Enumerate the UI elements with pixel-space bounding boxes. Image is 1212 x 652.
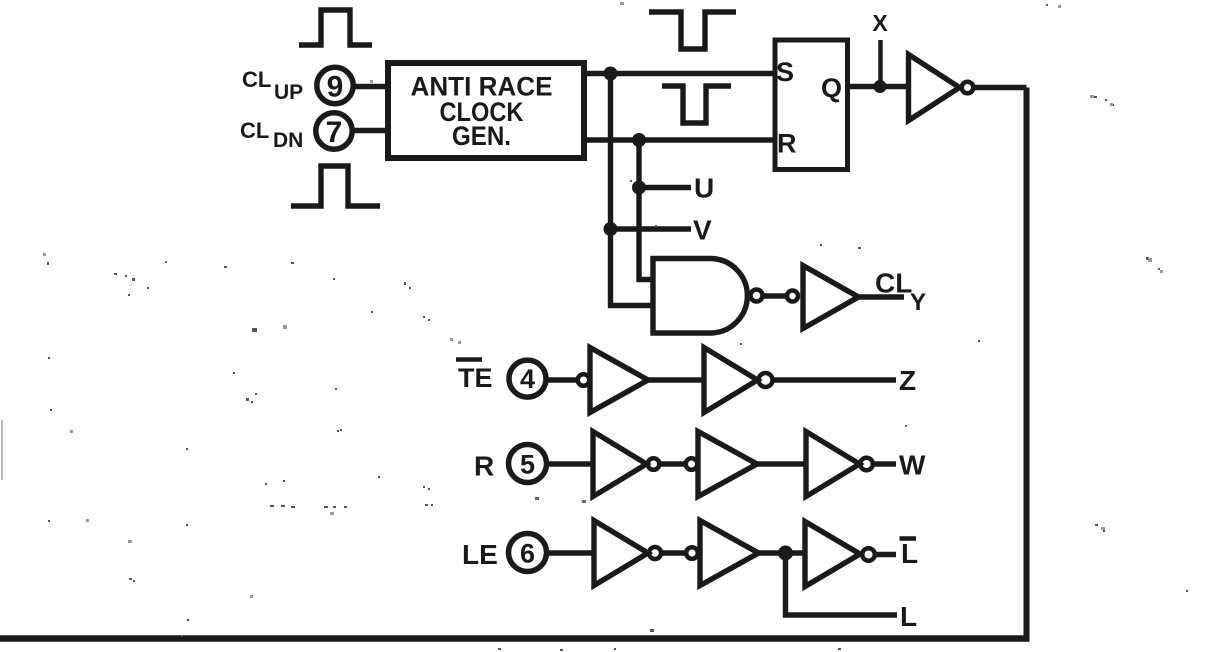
pin circle 6 (LE) <box>509 534 547 572</box>
wire right vertical bus <box>1024 88 1030 639</box>
junction node V <box>604 222 618 236</box>
svg-text:R: R <box>777 129 797 159</box>
wire pin4 to inverter <box>546 377 578 382</box>
inversion bubble of U4 <box>751 290 763 302</box>
wire vertical from S junction down to NAND lower input <box>611 74 656 306</box>
inverter U5 triangle <box>803 266 859 329</box>
svg-text:7: 7 <box>326 116 343 149</box>
output bubble of U13 <box>862 548 875 561</box>
svg-text:CL: CL <box>875 268 912 299</box>
svg-text:X: X <box>872 10 888 36</box>
buffer U3 (after Q) <box>909 55 960 121</box>
junction node U <box>632 181 646 195</box>
wire U10 output to W <box>873 461 896 466</box>
wire U9 to U10 <box>757 461 806 466</box>
junction before U13 <box>778 546 793 561</box>
wire bottom bus <box>0 635 1030 642</box>
pin circle 4 (TE) <box>509 360 546 397</box>
inversion bubble of U3 <box>962 82 974 94</box>
input bubble inverter U6 <box>578 374 590 386</box>
wire pin9 to block <box>353 84 388 89</box>
svg-text:U: U <box>694 173 714 204</box>
output bubble of U8 <box>648 458 660 470</box>
wire S net: block output to latch S input <box>587 71 774 76</box>
svg-text:S: S <box>776 57 794 87</box>
wire NAND to inverter U5 <box>763 293 786 298</box>
overline of TE label <box>456 357 482 362</box>
wire pin5 to U8 <box>547 461 593 466</box>
svg-text:R: R <box>474 451 494 482</box>
wire junction down to L <box>786 553 898 615</box>
junction node X <box>874 80 887 93</box>
svg-text:Q: Q <box>821 73 842 103</box>
wire node V stub <box>611 226 692 231</box>
wire R net: block output to latch R input <box>587 137 774 142</box>
SR latch U2 <box>775 40 848 170</box>
wire U5 output CL_Y <box>858 294 904 299</box>
wire U7 output to Z <box>773 377 897 382</box>
buffer U8 triangle <box>593 432 647 497</box>
wire U3 output to right bus corner <box>974 85 1027 90</box>
svg-text:L: L <box>900 601 917 632</box>
svg-text:GEN.: GEN. <box>452 121 511 151</box>
buffer U11 triangle <box>594 521 648 586</box>
svg-text:W: W <box>899 450 926 481</box>
svg-text:V: V <box>693 215 712 246</box>
buffer U13 triangle <box>805 522 860 587</box>
waveform negative pulse (second, near R input) <box>662 86 731 123</box>
inverter U6 triangle <box>590 348 648 413</box>
waveform positive pulse (below CL_DN pin) <box>291 166 380 206</box>
wire vertical from R junction down to NAND upper input <box>639 140 655 280</box>
wire node U stub <box>639 185 691 190</box>
svg-text:5: 5 <box>520 450 535 480</box>
svg-text:L: L <box>901 538 918 569</box>
svg-text:TE: TE <box>458 363 493 393</box>
NAND gate U4 <box>653 259 747 334</box>
svg-text:Y: Y <box>910 289 926 316</box>
wire U12 to U13 <box>759 550 806 555</box>
buffer U7 triangle <box>704 348 758 413</box>
svg-text:Z: Z <box>899 365 916 396</box>
output bubble of U10 <box>860 458 873 471</box>
junction on R net <box>632 133 646 147</box>
pin circle 5 (R) <box>509 445 547 483</box>
svg-text:4: 4 <box>520 364 535 394</box>
wire pin6 to U11 <box>547 550 595 555</box>
input bubble of U12 <box>686 547 698 559</box>
svg-text:9: 9 <box>327 71 344 104</box>
wire U11 to U12 <box>661 550 687 555</box>
waveform positive pulse (above CL_UP pin) <box>299 10 372 45</box>
input bubble of U9 <box>686 458 698 470</box>
svg-text:6: 6 <box>520 539 535 569</box>
wire node X tick <box>878 40 883 87</box>
input bubble of U5 <box>787 291 798 302</box>
wire Q output to buffer <box>848 84 908 89</box>
svg-text:UP: UP <box>274 81 303 104</box>
inverter U12 triangle <box>700 521 759 586</box>
buffer U10 triangle <box>806 432 860 497</box>
block U1 ANTI RACE CLOCK GEN <box>388 63 584 158</box>
output bubble of U11 <box>649 547 661 559</box>
inverter U9 triangle <box>698 432 757 497</box>
wire pin7 to block <box>352 128 388 133</box>
pin circle 9 (CL_UP) <box>317 67 353 103</box>
svg-text:CL: CL <box>240 118 269 143</box>
svg-text:LE: LE <box>462 539 498 570</box>
wire U8 to U9 <box>660 461 687 466</box>
junction on S net <box>604 67 618 81</box>
wire U6 to U7 <box>648 377 704 382</box>
wire U13 output to Lbar <box>875 552 896 557</box>
svg-text:CL: CL <box>242 67 271 92</box>
overline of Lbar label <box>900 536 917 541</box>
output bubble of U7 <box>759 373 773 387</box>
waveform negative pulse (top, near S input) <box>649 12 736 49</box>
pin circle 7 (CL_DN) <box>316 113 352 149</box>
svg-text:DN: DN <box>273 129 303 152</box>
